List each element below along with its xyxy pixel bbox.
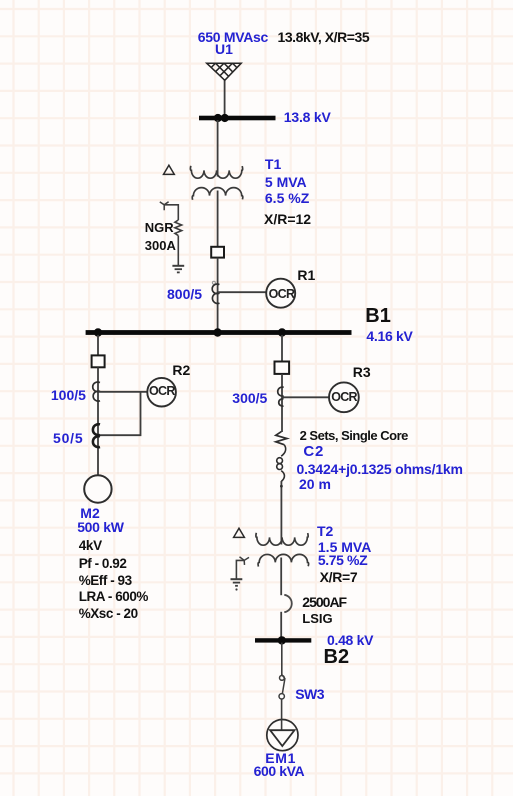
label R2 [172, 363, 190, 377]
load EM1 [267, 720, 298, 751]
label EM1 [265, 751, 296, 765]
wire switch to EM1 [281, 699, 283, 720]
breaker square (motor feeder) [92, 355, 105, 367]
CT 800/5 polarity mark [212, 281, 215, 284]
CT 100/5 [93, 382, 100, 401]
label 13.8kV, X/R=35 [278, 30, 370, 44]
bus B2 0.48 kV [255, 638, 311, 642]
label 1.5 MVA [318, 540, 371, 554]
label 6.5 %Z [265, 191, 309, 205]
label LRA - 600% [79, 590, 148, 604]
wire fuse to CT [217, 258, 219, 330]
delta winding marker T2 [234, 528, 245, 537]
relay R3 (OCR) [329, 382, 359, 412]
junction dot (utility / T1 tie) [214, 114, 229, 122]
wire NGR to ground [177, 236, 179, 266]
utility source U1 [207, 63, 242, 80]
label 2500AF [302, 595, 346, 609]
NGR neutral wye point [160, 202, 169, 210]
CT 300/5 [278, 387, 284, 406]
node B1 junction dots [94, 328, 286, 336]
label 50/5 [53, 431, 83, 445]
relay text OCR R1 [269, 288, 295, 301]
transformer T1 [190, 166, 242, 200]
fuse square below T1 [211, 247, 224, 258]
CT 50/5 [93, 424, 100, 447]
wire CT to relay R1 [218, 291, 267, 293]
label Pf - 0.92 [79, 557, 127, 571]
label 300/5 [232, 391, 267, 405]
label 4kV [79, 539, 102, 553]
switch SW3 [279, 674, 285, 699]
resistor NGR 300A [175, 220, 182, 236]
label R1 [297, 268, 315, 282]
motor M2 [84, 475, 111, 502]
label X/R=12 [264, 212, 311, 226]
label 4.16 kV [366, 329, 412, 343]
label NGR [145, 221, 174, 234]
label 500 kW [77, 520, 123, 534]
cable C2 loops [277, 445, 286, 482]
label 600 kVA [254, 764, 305, 778]
wire B1 to right breaker [281, 335, 283, 362]
label B2 [324, 647, 350, 667]
wire bus to T1 [217, 120, 219, 177]
wire T2 to breaker 2500AF [280, 558, 282, 596]
wire breaker to B2 [280, 612, 282, 639]
label %Xsc - 20 [79, 607, 138, 621]
label 100/5 [51, 388, 86, 402]
label T1 [265, 157, 281, 171]
relay R2 (OCR) [147, 378, 176, 407]
breaker square (T2 feeder) [275, 362, 290, 374]
T2 neutral wye point [240, 557, 250, 565]
bus 13.8 kV [199, 116, 276, 121]
label 2 Sets, Single Core [300, 429, 408, 442]
relay text OCR R2 [149, 385, 175, 398]
wire cable to T2 [280, 481, 282, 545]
relay text OCR R3 [331, 391, 357, 404]
ground (T2) [231, 579, 243, 590]
wire CT to relay R2 [99, 391, 148, 393]
label R3 [353, 365, 371, 379]
CT 800/5 [212, 284, 219, 303]
wire relay R2 loop to CT 50/5 [100, 393, 141, 436]
label X/R=7 [320, 570, 358, 584]
node cable bottom dot [280, 485, 283, 488]
label 300A [145, 239, 176, 252]
wire CT to relay R3 [283, 396, 330, 398]
label SW3 [295, 687, 324, 701]
label %Eff - 93 [79, 574, 132, 588]
wire wye to ground (T2) [236, 560, 244, 579]
label LSIG [302, 612, 332, 625]
breaker 2500AF arc [284, 595, 291, 612]
label B1 [365, 306, 391, 326]
transformer T2 [256, 533, 309, 567]
wire B2 to switch SW3 [281, 643, 283, 676]
label C2 [303, 444, 324, 459]
relay R1 (OCR) [266, 279, 295, 308]
label 5 MVA [265, 175, 307, 189]
wire utility drop [224, 79, 226, 117]
cable C2 impedance zigzag [276, 432, 287, 445]
wire breaker to motor [97, 367, 99, 476]
label 0.48 kV [327, 633, 373, 647]
wire T1 to fuse [217, 191, 219, 248]
label M2 [80, 506, 99, 520]
ground (NGR) [172, 266, 184, 273]
wire B1 to left breaker [97, 335, 99, 356]
label 800/5 [167, 287, 202, 301]
label U1 [215, 42, 233, 56]
label 650 MVAsc [198, 30, 268, 44]
wire wye to NGR [164, 205, 178, 220]
delta winding marker T1 [164, 165, 175, 174]
bus B1 4.16 kV [86, 330, 352, 335]
node B2 junction dot [278, 636, 286, 644]
label 0.3424+j0.1325 ohms/1km [297, 462, 463, 476]
label 20 m [299, 477, 331, 491]
label 5.75 %Z [318, 553, 367, 567]
label T2 [317, 524, 333, 538]
label 13.8 kV [284, 110, 331, 124]
wire breaker to CT [281, 374, 283, 432]
